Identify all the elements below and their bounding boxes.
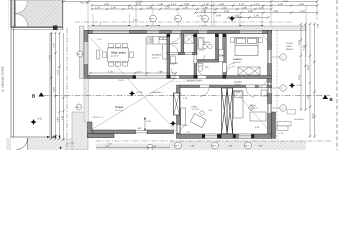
- corridor labels: [172, 81, 199, 83]
- svg-text:1.75: 1.75: [128, 6, 134, 9]
- nightstands: [231, 38, 263, 43]
- sliding glass door to terrace: [136, 75, 177, 77]
- svg-text:11.80 m²: 11.80 m²: [250, 107, 258, 110]
- svg-text:AB-2: AB-2: [202, 17, 208, 20]
- top dimension row 1: [63, 1, 317, 17]
- top dimension texts: [80, 0, 306, 22]
- west wall window gap: [84, 42, 88, 64]
- svg-text:16.42 m²: 16.42 m²: [233, 61, 241, 64]
- svg-text:2.60: 2.60: [224, 10, 230, 13]
- svg-text:4.55: 4.55: [49, 55, 52, 60]
- svg-text:AB-5: AB-5: [175, 144, 181, 147]
- corner diagonal top-right: [262, 35, 272, 46]
- svg-text:2.80: 2.80: [158, 70, 163, 73]
- svg-text:-0.45: -0.45: [37, 118, 43, 121]
- lower wing south wall: [177, 134, 272, 138]
- paving hatch left of terrace: [72, 112, 88, 150]
- terrace south wall segments: [92, 130, 174, 134]
- terrace door gap: [136, 127, 148, 133]
- svg-text:4.70: 4.70: [108, 70, 113, 73]
- svg-text:1.50: 1.50: [95, 6, 101, 9]
- svg-text:4.50: 4.50: [283, 0, 288, 3]
- svg-text:2.15: 2.15: [298, 75, 301, 80]
- svg-text:WC: WC: [205, 66, 209, 69]
- washer in shaft: [219, 50, 224, 56]
- svg-text:Kuchyně: Kuchyně: [152, 54, 162, 57]
- svg-text:ul. Zahradni 1234/5: ul. Zahradni 1234/5: [0, 66, 4, 92]
- elevation stars: [31, 83, 303, 127]
- south wall posts: [202, 134, 254, 138]
- existing building door swing arcs: [15, 1, 28, 27]
- svg-text:4.20: 4.20: [303, 45, 306, 50]
- extension drop lines: [63, 1, 317, 57]
- fence horizontal bottom-left: [11, 136, 51, 138]
- kitchen counter: [147, 37, 167, 45]
- svg-text:1.70: 1.70: [165, 6, 171, 9]
- planter hatch strip west of terrace: [84, 79, 89, 123]
- west wall hatch: [80, 26, 85, 79]
- bottom window marker circles: [175, 142, 252, 149]
- svg-text:1.15: 1.15: [171, 3, 177, 6]
- svg-text:AB-7: AB-7: [76, 106, 82, 109]
- bottom-left hatched strip with gate arc: [6, 138, 72, 150]
- svg-text:1.80: 1.80: [242, 6, 248, 9]
- door openings middle walls: [170, 52, 226, 78]
- wc symbol: [198, 64, 203, 72]
- dining table: [103, 44, 134, 67]
- roof overhang hatch band top: [88, 26, 306, 30]
- west terrace door gap in lower wall: [177, 125, 180, 133]
- right vertical dimension lines: [301, 24, 315, 137]
- svg-text:2.00: 2.00: [278, 3, 284, 6]
- door arcs lower rooms: [200, 79, 267, 97]
- north wall openings: [93, 31, 262, 34]
- wardrobe columns between lower rooms: [222, 88, 233, 134]
- svg-text:Tab. oken: Tab. oken: [80, 2, 90, 5]
- existing building wall lines: [11, 0, 63, 30]
- radiator west: [97, 50, 100, 59]
- svg-text:3.55: 3.55: [104, 3, 110, 6]
- svg-text:1.60: 1.60: [111, 6, 117, 9]
- south wall window gaps: [205, 134, 251, 138]
- svg-text:+0.15: +0.15: [136, 91, 143, 94]
- interior dim line above terrace wall: [90, 72, 176, 74]
- svg-text:2.60: 2.60: [299, 3, 305, 6]
- svg-text:4.35: 4.35: [133, 19, 138, 22]
- bottom dimension line under terrace: [96, 147, 170, 149]
- left paving circle marker: [76, 104, 82, 110]
- east wall window gaps: [268, 50, 272, 113]
- svg-text:2.10: 2.10: [222, 6, 228, 9]
- svg-text:1.15: 1.15: [137, 70, 142, 73]
- svg-text:1.90: 1.90: [307, 95, 310, 100]
- svg-text:9.86 m²: 9.86 m²: [152, 56, 159, 59]
- svg-text:1.90: 1.90: [203, 6, 209, 9]
- bedroom bed: [235, 38, 258, 56]
- svg-text:+0.30: +0.30: [68, 142, 74, 145]
- svg-text:1.90: 1.90: [147, 6, 153, 9]
- svg-text:+0.00: +0.00: [118, 79, 124, 82]
- boundary double line mid-left: [50, 33, 52, 150]
- left vertical dimension lines: [52, 33, 60, 139]
- svg-text:Ložnice: Ložnice: [233, 58, 243, 61]
- terrace door dim vertical: [144, 117, 146, 131]
- existing building hatched block top-left: [11, 0, 63, 27]
- svg-text:1.90: 1.90: [254, 15, 260, 18]
- svg-text:2.30: 2.30: [136, 3, 142, 6]
- corridor bottom wall: [180, 85, 272, 88]
- svg-text:-0.02: -0.02: [92, 116, 98, 119]
- utility line vertical dash-dot: [66, 28, 68, 150]
- svg-text:2.60: 2.60: [57, 117, 60, 122]
- svg-text:3.10: 3.10: [57, 70, 60, 75]
- scattered annotation texts: [92, 38, 304, 135]
- svg-text:AB-6: AB-6: [245, 144, 251, 147]
- svg-text:+3.35: +3.35: [236, 16, 243, 19]
- svg-text:sklon 2%: sklon 2%: [152, 91, 161, 94]
- terrace circle marker: [147, 145, 153, 151]
- svg-text:1.60: 1.60: [259, 6, 265, 9]
- svg-text:2.00: 2.00: [183, 6, 189, 9]
- property boundary dashed right: [336, 0, 338, 150]
- garden wall stub bottom: [88, 134, 115, 138]
- svg-text:41.28 m²: 41.28 m²: [111, 55, 119, 58]
- terrace west wall: [88, 122, 93, 138]
- small vertical dim left inside: [63, 33, 65, 140]
- svg-text:zateplení fasády: zateplení fasády: [186, 79, 203, 82]
- living south wall: [88, 76, 136, 79]
- pokoj 1 furniture: [181, 108, 206, 128]
- west wall: [84, 30, 88, 78]
- bathtub vertical: [198, 38, 205, 51]
- door gaps corridor wall: [200, 85, 267, 87]
- paving hatch bottom strip: [96, 141, 306, 150]
- top dimension ticks: [62, 0, 319, 18]
- exterior steps east: [277, 122, 291, 126]
- living room + terrace diagonals: [89, 37, 177, 132]
- svg-text:AB-5: AB-5: [212, 144, 218, 147]
- left boundary fence lines: [9, 0, 14, 138]
- dashed overhang edge right: [276, 30, 278, 142]
- roof line dash-dot: [75, 21, 292, 23]
- svg-text:Zádveří: Zádveří: [171, 62, 179, 65]
- svg-text:2.00: 2.00: [201, 10, 207, 13]
- svg-text:2.80: 2.80: [273, 10, 279, 13]
- entry door arc: [172, 34, 180, 42]
- svg-text:1.40: 1.40: [158, 3, 164, 6]
- fix window terrace: [174, 93, 180, 115]
- room labels middle: [171, 41, 212, 69]
- door arcs middle rooms: [170, 45, 235, 76]
- svg-text:1.45: 1.45: [53, 43, 56, 48]
- svg-text:2.20: 2.20: [248, 10, 254, 13]
- double washbasin: [203, 44, 207, 48]
- middle small rooms walls: [167, 34, 272, 79]
- junction posts: [167, 33, 227, 78]
- east wall insulation lower: [272, 112, 276, 138]
- kitchen partition thin line: [145, 37, 147, 76]
- svg-text:3.25: 3.25: [298, 40, 301, 45]
- window marker circles top: [150, 15, 209, 22]
- window marker circle west: [77, 51, 83, 57]
- svg-text:Obýv. pokoj: Obýv. pokoj: [111, 52, 126, 55]
- legend tiny box: [287, 110, 296, 115]
- svg-text:6.80: 6.80: [53, 87, 56, 92]
- svg-text:AB-1: AB-1: [175, 17, 181, 20]
- svg-text:AB-3: AB-3: [77, 53, 83, 56]
- svg-text:-0.15: -0.15: [296, 84, 302, 87]
- svg-text:AB-1: AB-1: [150, 17, 156, 20]
- svg-text:0.90: 0.90: [216, 15, 222, 18]
- svg-text:24.61 m²: 24.61 m²: [115, 109, 123, 112]
- svg-text:odvodnění: odvodnění: [294, 118, 304, 121]
- main north wall: [88, 30, 272, 33]
- window sill lines: [93, 25, 262, 27]
- east window marker circles: [280, 54, 286, 111]
- bedroom door arc: [226, 66, 235, 75]
- svg-text:6.00: 6.00: [307, 65, 310, 70]
- terasa text right: [286, 42, 294, 51]
- dim arrow cluster bottom-left: [47, 136, 62, 150]
- svg-text:4.40: 4.40: [312, 113, 315, 118]
- elevation star top: [229, 16, 243, 22]
- svg-text:2.60: 2.60: [300, 10, 306, 13]
- svg-text:Terasa: Terasa: [115, 106, 124, 109]
- svg-text:dlažba: dlažba: [286, 48, 294, 51]
- section line B-B: [32, 92, 334, 102]
- zadveri closet: [170, 56, 175, 64]
- svg-text:12.14 m²: 12.14 m²: [192, 108, 200, 111]
- lower wing left wall: [177, 85, 181, 134]
- pokoj 2 furniture: [234, 91, 267, 122]
- east wall: [268, 30, 272, 138]
- tech closet square: [185, 35, 194, 44]
- chest at bed foot: [238, 67, 260, 75]
- svg-text:Komora: Komora: [171, 42, 179, 45]
